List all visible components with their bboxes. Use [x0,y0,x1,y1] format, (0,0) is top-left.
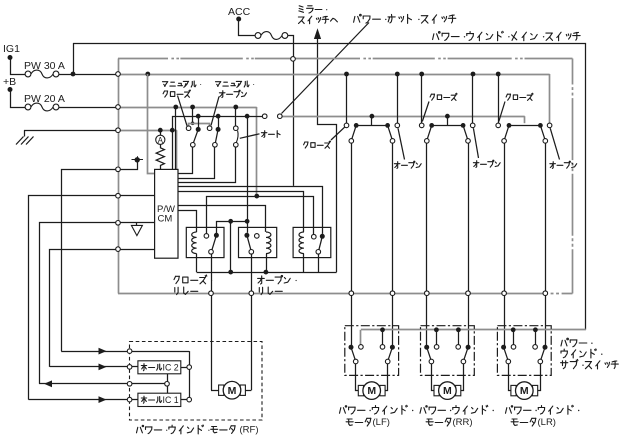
sub switch feed bar [361,327,586,344]
hall IC output tie [187,351,192,402]
motor LR [511,382,538,400]
sub switch LF box [345,326,399,376]
main switch pins left [116,72,121,252]
hall IC mid tie [165,374,170,393]
label power window main switch [433,31,580,40]
wire open relay to RF motor [251,254,253,390]
manual close callout [178,96,188,126]
bus switched feed (y116 right) [282,114,525,123]
close relay coil [192,232,197,272]
bus ground (y116 left) [173,114,263,170]
svg-text:M: M [443,385,452,397]
hall IC1 row [29,396,138,403]
wire CM hall signal [40,223,155,384]
wire manual close to CM [178,147,193,173]
bus ground wire (y130) [118,128,177,170]
label manual close [163,81,202,97]
label mirror switch [298,6,337,24]
wire B+ top run [73,44,586,330]
fuse ACC [255,32,288,40]
motor RR [434,382,461,400]
ground [16,130,34,144]
wire hall IC feed run [62,170,119,352]
svg-text:(LR): (LR) [538,417,556,428]
wire CM to relay3 pivot [178,187,323,234]
window switch LR [496,74,552,347]
sub switch RR contacts [424,345,470,391]
wire CM to close relay coil [178,211,197,233]
motor RF [219,381,246,399]
label close RR switch [422,93,457,121]
wire +B to relay NO contacts [207,194,314,235]
open relay box [239,227,277,257]
svg-text:PW 30 A: PW 30 A [24,60,65,72]
cutoff relay coil [299,232,304,272]
svg-text:A: A [158,136,164,145]
svg-text:CM: CM [158,214,173,225]
label motor LR [506,405,580,428]
hall IC2 [138,361,189,374]
label auto [240,131,280,139]
wire IG1 feed to main switch [59,43,116,76]
wire manual open to CM [178,147,215,178]
wire +B to CM [175,107,177,169]
close relay contacts [204,233,219,254]
sub switch LR contacts [501,345,547,391]
fuse PW 20 A [24,93,65,111]
sub switch LF contacts [349,345,395,391]
wire +B bus drop to relay contacts [256,107,258,196]
label open RR switch [473,128,500,167]
svg-text:(RF): (RF) [240,424,259,435]
label power cut switch [354,14,456,23]
wire IG1 bus to CM [148,74,155,174]
svg-text:IC 1: IC 1 [163,395,179,405]
fuse PW 30 A [24,60,65,78]
auto switch [234,107,239,147]
window switch RR [419,74,475,347]
P/W CM box [155,169,178,258]
label close relay [174,275,212,295]
lamp A [156,130,165,145]
feed tee for manual switch contacts [189,107,210,126]
label motor RF [137,424,259,435]
label manual open [216,81,255,98]
wire +B feed to main switch [59,107,116,109]
power cut switch lever [282,23,370,114]
wire relay coil common [197,272,337,274]
svg-text:(LF): (LF) [373,417,390,428]
manual open switch [207,115,220,147]
open relay contacts [244,233,259,254]
hall IC2 row [50,364,138,371]
wire CM to relay3 coil [178,192,304,232]
svg-text:IC 2: IC 2 [163,363,179,373]
wire relay pivot tie [217,219,248,233]
svg-text:(RR): (RR) [453,417,473,428]
cutoff relay box [293,227,331,257]
power cut switch contacts [262,114,282,119]
wire CM hall feed [29,196,155,400]
svg-text:IG1: IG1 [3,43,20,55]
label close LF switch [304,127,345,148]
svg-text:+B: +B [3,76,16,88]
cutoff relay contacts [312,234,325,272]
label open LR switch [550,128,577,168]
svg-text:M: M [520,385,529,397]
wire to mirror switch with arrow [314,28,337,272]
wire ground bus to relay pivots [245,116,250,233]
label sub switch [561,338,619,369]
main switch pin ACC [291,57,296,62]
node IG1 [3,43,25,75]
motor RF wires [211,390,251,392]
hall common row [39,380,167,387]
label open LF switch [394,128,421,168]
bus IG1 (y74) [118,72,550,124]
hall feed row [61,348,189,355]
svg-text:PW 20 A: PW 20 A [24,93,65,105]
hall IC1 [138,393,189,406]
window switch LF [344,74,399,347]
sub switch LR box [497,326,551,376]
wire pivot tie to coil common [228,221,233,274]
label motor RR [420,405,494,428]
bus +B (y107) [118,105,257,110]
splice to hall IC feed [118,156,143,169]
wire auto to CM [178,147,236,182]
power window main switch boundary [118,59,573,294]
RF unit pins [127,349,132,402]
motor LF [358,382,385,400]
close relay box [186,227,224,257]
svg-text:ACC: ACC [228,6,251,18]
node ACC [228,6,255,36]
nabla symbol [131,223,142,236]
label open relay [258,275,297,294]
main switch pins bottom [209,291,548,296]
svg-text:M: M [367,385,376,397]
svg-text:M: M [228,385,237,397]
wire CM to open relay coil [178,206,266,232]
node +B [3,76,25,108]
wire ACC to main switch [288,36,294,186]
wire ground to main switch [24,130,116,132]
resistor [156,144,164,169]
manual open callout [211,97,219,126]
label close LR switch [499,93,533,121]
sub switch RR box [421,326,475,376]
RF motor unit box [130,342,263,421]
wire close relay to RF motor [211,254,213,390]
open relay coil [264,232,271,275]
wire CM hall signal 2 [50,250,155,367]
manual close switch [186,115,200,147]
label motor LF [340,405,414,428]
